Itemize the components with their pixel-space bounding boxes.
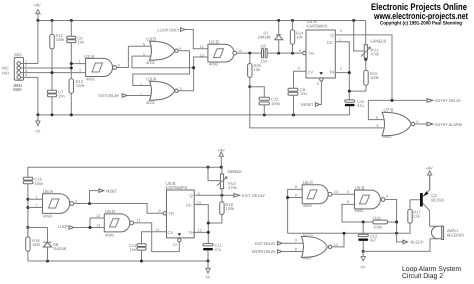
capacitor C16 100n — [23, 177, 43, 237]
+9V supply symbol (at Q3) — [426, 166, 434, 190]
nand gate U6:B 4093 — [347, 186, 388, 214]
wire: +8V top rail — [38, 20, 366, 22]
svg-text:4u7: 4u7 — [370, 238, 377, 243]
node: top rail junctions — [36, 19, 355, 22]
svg-text:3: 3 — [118, 63, 120, 67]
svg-text:8: 8 — [159, 209, 161, 213]
wire: U6:C out to U6:B in — [332, 193, 355, 195]
capacitor C13 4u7 (electrolytic) — [358, 222, 378, 251]
node: R16/C13 junction and output junctions — [362, 221, 398, 235]
svg-text:100k: 100k — [226, 206, 235, 211]
svg-text:CV: CV — [308, 70, 314, 75]
svg-text:4001: 4001 — [146, 100, 156, 105]
svg-text:Loop Alarm System: Loop Alarm System — [402, 265, 461, 273]
svg-text:4001: 4001 — [383, 134, 393, 139]
node: U6:A input junctions on C16 line — [26, 198, 29, 229]
svg-text:LOOP: LOOP — [58, 224, 68, 229]
svg-text:100k: 100k — [373, 224, 382, 229]
node: feedback junctions — [286, 196, 345, 235]
buzzer AWD1 BLEEPER — [363, 226, 464, 251]
svg-text:470k: 470k — [371, 52, 380, 57]
svg-text:ENTRY DELAY: ENTRY DELAY — [435, 98, 461, 103]
svg-text:12: 12 — [200, 45, 204, 49]
op-amp.. timer U4:A ICM7556IPD — [298, 19, 343, 86]
svg-text:6: 6 — [377, 124, 379, 128]
capacitor C11 47u (electrolytic) — [203, 243, 222, 261]
terminal EXIT DELAY (input to U7:C) — [255, 239, 303, 246]
wire: +9V rail (bottom section) — [28, 167, 221, 177]
+8V supply symbol — [34, 3, 42, 21]
svg-text:TR: TR — [169, 211, 174, 216]
svg-text:10k: 10k — [296, 35, 302, 40]
svg-text:U6:D: U6:D — [105, 209, 116, 214]
svg-text:EXIT DELAY: EXIT DELAY — [242, 193, 265, 198]
svg-text:3: 3 — [298, 67, 300, 71]
svg-text:0V: 0V — [206, 274, 211, 279]
svg-text:5: 5 — [340, 29, 342, 33]
svg-text:13: 13 — [200, 53, 204, 57]
svg-text:100n: 100n — [35, 181, 44, 186]
svg-text:TR: TR — [309, 51, 314, 56]
svg-text:ENTRY ALARM: ENTRY ALARM — [435, 122, 462, 127]
svg-text:3: 3 — [75, 199, 77, 203]
wire: U4:A DC/TH node — [335, 42, 366, 100]
capacitor C12 100p — [250, 87, 281, 115]
capacitor C7 10n — [47, 90, 64, 115]
svg-text:TH: TH — [329, 70, 334, 75]
capacitor C9 10n — [288, 71, 307, 115]
svg-text:4: 4 — [386, 194, 388, 198]
svg-text:100k: 100k — [76, 83, 85, 88]
resistor R13 100k — [69, 79, 84, 115]
svg-text:9: 9 — [295, 239, 297, 243]
svg-text:2: 2 — [36, 203, 38, 207]
node: DC/TH junctions — [348, 71, 351, 93]
svg-text:2: 2 — [140, 83, 142, 87]
svg-text:www.electronic-projects.net: www.electronic-projects.net — [373, 11, 468, 21]
wire: node to U6:A inputs — [28, 199, 43, 207]
svg-text:11: 11 — [137, 219, 141, 223]
svg-text:4093: 4093 — [303, 203, 313, 208]
svg-text:4093: 4093 — [355, 208, 365, 213]
svg-text:4001: 4001 — [303, 256, 313, 261]
svg-text:10n: 10n — [78, 40, 85, 45]
svg-text:13: 13 — [96, 224, 100, 228]
svg-text:CV: CV — [168, 230, 174, 235]
svg-text:Q: Q — [190, 193, 193, 198]
wire: U3:A out to U3:B in and U2:D in — [132, 56, 208, 91]
resistor R15 100k — [364, 60, 379, 92]
svg-text:ENTRY: ENTRY — [13, 87, 22, 92]
svg-text:5-30 SECS: 5-30 SECS — [228, 169, 242, 174]
svg-text:0V: 0V — [361, 265, 366, 270]
svg-text:4093: 4093 — [43, 213, 53, 218]
terminal ENTRY DELAY (input to U7:C) — [252, 248, 303, 255]
nor gate U3:B 4001 — [143, 37, 181, 65]
resistor R18 100k — [208, 195, 234, 223]
terminal BLEEP input — [397, 233, 424, 245]
wire: C8 to U4:A TR — [267, 52, 302, 54]
svg-text:10n: 10n — [58, 94, 65, 99]
svg-text:RESET: RESET — [301, 102, 314, 107]
nand gate U2:D 4093 — [200, 40, 242, 67]
svg-text:EXIT DELAY: EXIT DELAY — [255, 241, 276, 246]
svg-text:BLEEP: BLEEP — [411, 240, 424, 245]
svg-text:ICM7556IPD: ICM7556IPD — [166, 185, 188, 190]
svg-text:6: 6 — [299, 49, 301, 53]
wire: U2:D output to C8 — [237, 52, 262, 54]
capacitor C14 10n (CV decoupling) — [129, 232, 167, 261]
variable resistor RV1 470k — [354, 21, 387, 60]
node: bottom rail junctions — [46, 260, 210, 263]
nand gate U6:D 4093 — [96, 209, 140, 237]
terminal ENTRY ALARM — [415, 122, 462, 127]
svg-text:6: 6 — [347, 200, 349, 204]
wire: C6 node to U2:A input 1 — [71, 63, 85, 65]
svg-text:4: 4 — [317, 82, 319, 86]
svg-text:ICM7556IPD: ICM7556IPD — [307, 23, 328, 28]
ground 0V symbol (at C13) — [361, 251, 366, 269]
0V bottom rail (top section) — [38, 114, 350, 116]
ground 0V symbol (at C11) — [206, 261, 211, 279]
svg-text:5: 5 — [347, 190, 349, 194]
resistor R17 22k — [397, 200, 422, 234]
svg-text:Circuit Diag 2: Circuit Diag 2 — [402, 272, 443, 280]
nor gate U7:C 4001 — [301, 232, 337, 261]
svg-text:100p: 100p — [271, 101, 281, 106]
svg-text:N/O: N/O — [2, 70, 9, 75]
svg-text:10: 10 — [334, 190, 338, 194]
svg-text:2: 2 — [79, 69, 81, 73]
svg-text:10: 10 — [173, 243, 177, 247]
nand gate U6:A 4093 — [36, 189, 77, 219]
nor gate U7:B 4001 — [376, 108, 418, 139]
resistor R14 10k — [290, 21, 304, 54]
ground 0V symbol (top section) — [36, 115, 41, 133]
wire: SK5 pin1 to +8V rail — [21, 21, 38, 64]
node: C6/pin2 junction — [70, 62, 73, 65]
svg-text:Q: Q — [331, 33, 334, 38]
wire: U6:B lower input feedback via R16 — [342, 200, 397, 234]
node: R12/pin3 junction — [51, 71, 54, 74]
terminal LOOP ONLY — [157, 27, 208, 49]
wire: U4:A Q to ENTRY DELAY and U7:B — [335, 35, 427, 120]
svg-text:9: 9 — [295, 193, 297, 197]
svg-text:C8: C8 — [261, 44, 267, 49]
svg-text:10k: 10k — [254, 67, 260, 72]
resistor R19 1M0 — [26, 228, 41, 262]
node: R25/C12 junction — [248, 85, 251, 88]
0V bottom rail (bottom section) — [28, 260, 208, 262]
node: DC/TH junctions — [207, 222, 210, 234]
terminal RESET (output tap) — [90, 188, 118, 203]
wire: U6:D output to U4:B RST — [134, 223, 180, 252]
svg-text:0V: 0V — [36, 128, 41, 133]
wire: U2:A output to U3:B input 6 — [117, 46, 151, 67]
terminal LOOP input — [58, 218, 104, 229]
svg-text:47u: 47u — [215, 247, 222, 252]
svg-text:100k: 100k — [370, 75, 379, 80]
wire: U4:B Q to EXIT DELAY terminal — [194, 194, 234, 196]
svg-text:12: 12 — [96, 214, 100, 218]
svg-text:10n: 10n — [130, 247, 137, 252]
svg-text:10n: 10n — [300, 91, 307, 96]
terminal EXIT DELAY (input to U3:A) — [99, 93, 152, 98]
nor gate U3:A 4001 — [140, 77, 182, 105]
node: C13 ground junction — [362, 250, 365, 253]
svg-text:+9V: +9V — [426, 166, 434, 171]
resistor R16 100k — [373, 215, 388, 229]
svg-text:BC558: BC558 — [431, 198, 444, 203]
svg-text:47u: 47u — [357, 103, 364, 108]
svg-text:5: 5 — [376, 116, 378, 120]
node: +9V rail junctions — [207, 166, 223, 169]
svg-text:8: 8 — [295, 248, 297, 252]
svg-text:LOOP ONLY: LOOP ONLY — [157, 27, 179, 32]
node: RV1/R15 junction — [364, 58, 367, 61]
svg-text:BLEEPER: BLEEPER — [447, 233, 464, 238]
svg-text:2: 2 — [340, 67, 342, 71]
svg-text:5-30 SECS: 5-30 SECS — [370, 39, 386, 44]
svg-text:4093: 4093 — [86, 77, 96, 82]
connector SK5 4-TERM ENTRY — [13, 52, 24, 92]
svg-text:DC: DC — [186, 202, 192, 207]
transistor Q3 BC558 (PNP) — [410, 175, 444, 226]
svg-text:6: 6 — [143, 43, 145, 47]
nand gate U2:A 4093 — [79, 54, 120, 82]
svg-text:U6:A: U6:A — [43, 189, 53, 194]
wire: U4:B DC/TH/C11 vertical — [194, 205, 208, 244]
svg-text:100k: 100k — [56, 37, 65, 42]
svg-text:1M0: 1M0 — [32, 242, 41, 247]
svg-text:4093: 4093 — [209, 62, 219, 67]
svg-text:EXIT DELAY: EXIT DELAY — [99, 93, 120, 98]
svg-text:TH: TH — [189, 230, 194, 235]
node: LOOP to U6:D both inputs — [89, 226, 92, 229]
node: bottom rail junctions — [36, 113, 295, 116]
node: RESET tap — [88, 202, 91, 205]
variable resistor RV2 470k — [208, 167, 242, 195]
svg-text:Copyright (c) 1991-2000 Paul S: Copyright (c) 1991-2000 Paul Stenning — [380, 21, 462, 27]
capacitor C10 47u (electrolytic) — [345, 99, 365, 115]
node: latch feedback junction — [192, 66, 195, 69]
node: ENTRY DELAY junction — [391, 99, 394, 102]
diode D8 1N4148 — [28, 228, 67, 262]
node: RV2 bottom junction — [220, 194, 223, 197]
svg-text:8: 8 — [295, 185, 297, 189]
terminal RESET (U4:A reset input) — [301, 81, 321, 107]
terminal ENTRY DELAY — [427, 98, 461, 103]
svg-text:1: 1 — [140, 93, 142, 97]
wire: R25 node to U7:B input 6 — [250, 87, 384, 128]
wire: U6:A output to U4:B TR — [74, 204, 163, 214]
+9V supply symbol (bottom left circuit) — [218, 148, 226, 168]
svg-text:15n: 15n — [261, 59, 268, 64]
svg-text:+8V: +8V — [34, 3, 42, 8]
wire: SK5 pin2 to C6/R13 node — [21, 67, 72, 69]
pin numbers SK5 — [25, 60, 27, 78]
svg-text:22k: 22k — [413, 214, 419, 219]
wire: U7:C output feedback to U6:C inputs — [288, 189, 397, 247]
svg-text:RESET: RESET — [106, 188, 118, 193]
svg-text:R16: R16 — [373, 215, 381, 220]
capacitor C8 15n (series) — [261, 44, 268, 64]
svg-text:1: 1 — [36, 195, 38, 199]
svg-text:4001: 4001 — [146, 60, 156, 65]
resistor R25 10k — [248, 53, 262, 87]
wire: U3:B out to U3:A in (latch cross-couple) — [133, 51, 190, 86]
terminal EXIT DELAY (output) — [234, 193, 265, 198]
svg-text:4: 4 — [416, 120, 418, 124]
svg-text:1N4148: 1N4148 — [53, 246, 67, 251]
svg-text:ENTRY DELAY: ENTRY DELAY — [252, 249, 276, 254]
diode D7 1N4148 — [258, 21, 283, 54]
svg-text:DC: DC — [327, 40, 333, 45]
svg-text:470k: 470k — [228, 185, 237, 190]
node: R25 tap on U2:D output — [248, 52, 251, 55]
timer U4:B ICM7556IPD — [156, 181, 202, 247]
svg-text:SK5: SK5 — [14, 52, 22, 57]
nand gate U6:C 4093 — [295, 180, 339, 208]
capacitor C6 10n — [67, 21, 84, 79]
wire: SK5 pin4 to 0V rail — [21, 77, 38, 115]
node: D7 and R14 taps — [277, 52, 294, 55]
svg-text:1: 1 — [79, 60, 81, 64]
resistor R12 100k — [50, 21, 64, 91]
svg-text:1N4148: 1N4148 — [258, 35, 272, 40]
wire: SK5 pin3 to U2:A input 2 — [21, 72, 86, 74]
svg-text:4093: 4093 — [105, 232, 115, 237]
